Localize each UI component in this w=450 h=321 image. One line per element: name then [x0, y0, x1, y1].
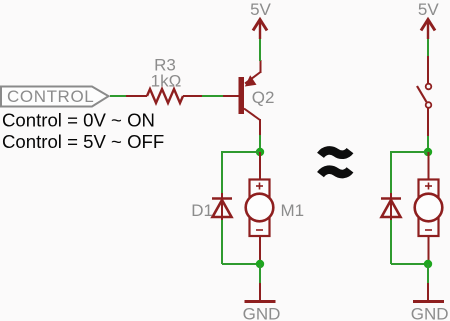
svg-text:5V: 5V	[418, 0, 439, 19]
node junction top	[256, 148, 264, 156]
wire	[222, 263, 260, 265]
svg-text:Control = 0V ~ ON: Control = 0V ~ ON	[2, 110, 155, 131]
wire	[259, 39, 261, 61]
wire	[202, 95, 223, 97]
wire	[222, 151, 260, 153]
wire	[390, 220, 392, 264]
diode right	[381, 193, 401, 222]
node CONTROL	[1, 87, 109, 107]
node junction bottom right	[424, 260, 432, 268]
approx symbol	[321, 150, 351, 174]
svg-text:GND: GND	[411, 305, 449, 321]
wire	[110, 95, 126, 97]
svg-text:Control = 5V ~ OFF: Control = 5V ~ OFF	[2, 131, 164, 152]
node junction top right	[424, 148, 432, 156]
wire	[391, 151, 428, 153]
node junction bottom	[256, 260, 264, 268]
wire	[427, 136, 429, 152]
svg-text:1kΩ: 1kΩ	[151, 72, 182, 91]
svg-text:M1: M1	[281, 201, 305, 220]
power 5V left	[250, 0, 271, 39]
wire	[221, 151, 223, 197]
wire	[427, 264, 429, 283]
wire	[391, 263, 428, 265]
wire	[427, 39, 429, 57]
svg-text:CONTROL: CONTROL	[7, 87, 94, 106]
wire	[259, 264, 261, 283]
motor M1	[246, 152, 304, 264]
wire	[390, 151, 392, 197]
svg-text:D1: D1	[191, 201, 213, 220]
wire	[221, 220, 223, 264]
motor right	[415, 152, 443, 264]
ground right	[411, 283, 449, 321]
switch S1	[417, 56, 431, 136]
svg-text:5V: 5V	[250, 0, 271, 19]
transistor Q2	[223, 60, 274, 136]
svg-text:GND: GND	[243, 305, 281, 321]
diode D1	[191, 193, 232, 222]
wire	[259, 135, 261, 152]
svg-text:Q2: Q2	[252, 88, 275, 107]
resistor R3	[126, 56, 202, 104]
power 5V right	[418, 0, 439, 39]
ground left	[243, 283, 281, 321]
